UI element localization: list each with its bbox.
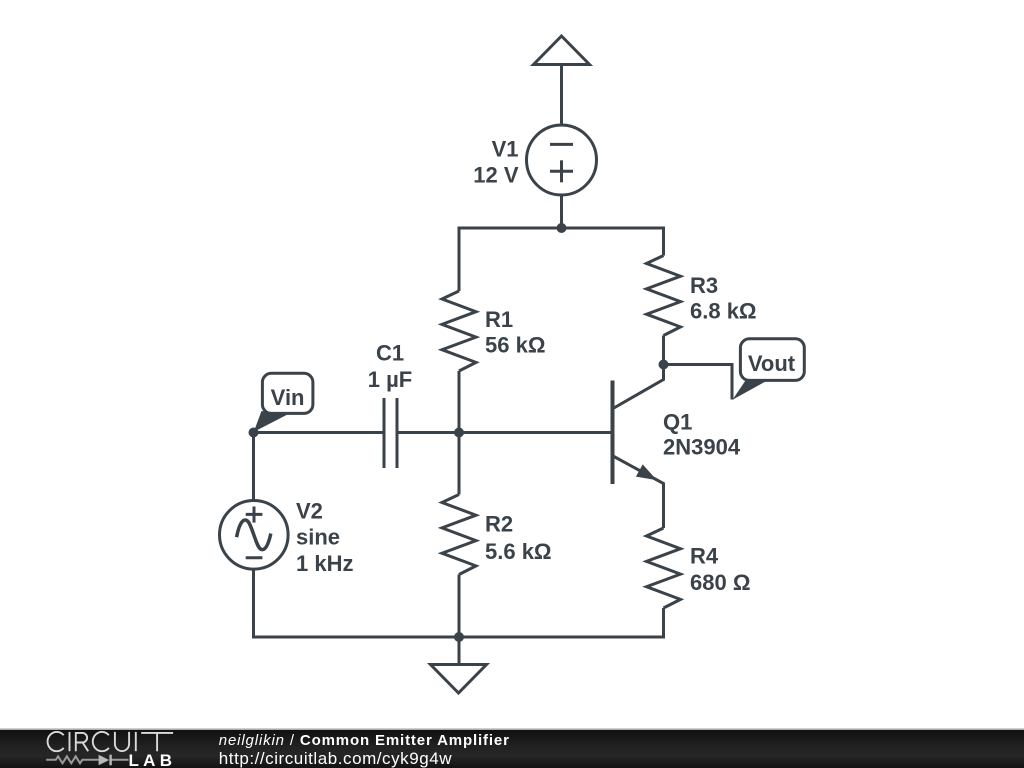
- svg-text:V1: V1: [492, 136, 519, 161]
- svg-text:R3: R3: [690, 273, 718, 298]
- svg-text:1 µF: 1 µF: [368, 367, 412, 392]
- footer bar: [0, 730, 1024, 768]
- wire base left (Vin to C1): [254, 431, 385, 434]
- svg-text:http://circuitlab.com/cyk9g4w: http://circuitlab.com/cyk9g4w: [219, 749, 452, 768]
- wire top rail: [459, 228, 664, 291]
- svg-text:Vout: Vout: [748, 351, 796, 376]
- ground symbol: [431, 665, 487, 694]
- wire V1 bottom to rail: [560, 195, 563, 228]
- wire node B to R2: [458, 433, 461, 495]
- power flag VCC: [534, 36, 590, 65]
- wire C1 to base: [397, 431, 613, 434]
- CircuitLab logo diode: [99, 755, 112, 766]
- Vin callout box: [262, 373, 313, 413]
- resistor R3: [647, 256, 681, 336]
- junction dot ground rail: [454, 632, 464, 642]
- svg-text:5.6 kΩ: 5.6 kΩ: [485, 539, 552, 564]
- wire collector node to Vout: [664, 365, 733, 400]
- svg-text:V2: V2: [296, 499, 323, 524]
- resistor R2: [442, 495, 476, 575]
- resistor R4: [647, 528, 681, 608]
- svg-text:1 kHz: 1 kHz: [296, 551, 353, 576]
- svg-text:neilglikin / Common Emitter Am: neilglikin / Common Emitter Amplifier: [219, 732, 510, 749]
- svg-text:12 V: 12 V: [473, 163, 519, 188]
- wire Vin node down to V2: [252, 433, 255, 501]
- Vin callout tail: [254, 411, 287, 432]
- junction dot top rail: [557, 223, 567, 233]
- wire R1 to node B: [458, 371, 461, 433]
- Vout callout tail: [733, 379, 770, 400]
- Vout callout box: [740, 339, 804, 381]
- wire R3 to collector node: [662, 336, 665, 365]
- junction dot node B: [454, 428, 464, 438]
- svg-text:Q1: Q1: [663, 409, 692, 434]
- svg-text:LAB: LAB: [129, 751, 177, 768]
- wire R2 to bottom rail: [458, 575, 461, 639]
- voltage source V2 sine: [220, 501, 289, 570]
- transistor Q1 base bar: [611, 381, 615, 485]
- svg-text:R2: R2: [485, 512, 513, 537]
- svg-text:6.8 kΩ: 6.8 kΩ: [690, 299, 757, 324]
- junction dot Vin node: [249, 428, 259, 438]
- svg-text:2N3904: 2N3904: [663, 435, 741, 460]
- voltage source V1: [527, 125, 597, 195]
- svg-text:Vin: Vin: [271, 385, 305, 410]
- transistor Q1 emitter arrow: [636, 464, 657, 480]
- transistor Q1 emitter leg: [613, 456, 664, 528]
- junction dot collector node: [659, 360, 669, 370]
- footer top light line: [0, 728, 1024, 730]
- wire ground stem: [458, 637, 461, 665]
- CircuitLab logo wire and resistor: [46, 756, 128, 763]
- svg-text:R1: R1: [485, 307, 513, 332]
- svg-text:C1: C1: [376, 341, 404, 366]
- svg-text:sine: sine: [296, 525, 340, 550]
- wire bottom rail: [254, 569, 664, 637]
- svg-text:680 Ω: 680 Ω: [690, 570, 750, 595]
- wire VCC to V1 top: [560, 65, 563, 126]
- transistor Q1 collector leg: [613, 365, 664, 409]
- resistor R1: [442, 291, 476, 371]
- CircuitLab logo CIRCUIT: [48, 732, 174, 751]
- capacitor C1: [384, 398, 397, 468]
- svg-text:56 kΩ: 56 kΩ: [485, 333, 545, 358]
- svg-text:R4: R4: [690, 544, 719, 569]
